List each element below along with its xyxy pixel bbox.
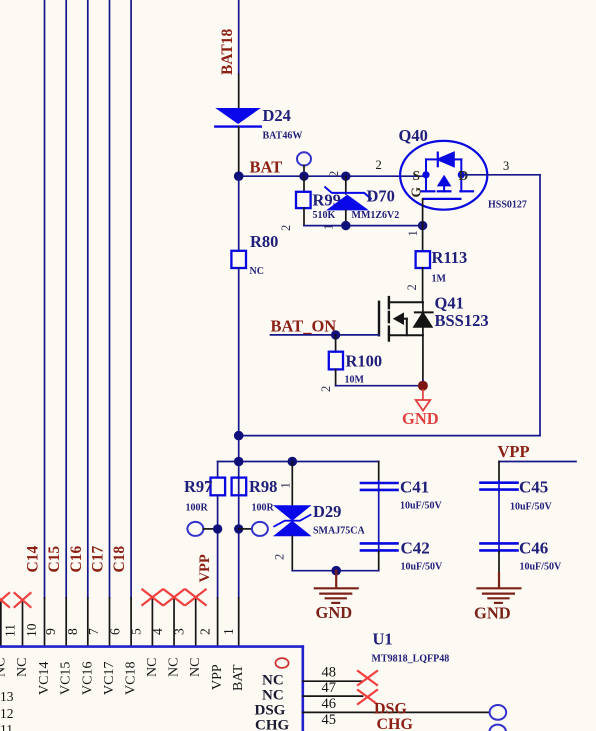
node junction D70 bottom [341, 221, 350, 230]
resistor R98 (on main line) [232, 478, 247, 496]
svg-text:C18: C18 [111, 546, 128, 573]
svg-text:1: 1 [279, 482, 293, 488]
node junction D29 top [288, 457, 298, 467]
svg-text:2: 2 [197, 628, 212, 635]
svg-text:10uF/50V: 10uF/50V [400, 501, 442, 512]
pin dot D of Q40 [458, 171, 465, 178]
svg-text:HSS0127: HSS0127 [488, 200, 527, 211]
svg-text:BSS123: BSS123 [435, 311, 489, 330]
wire main line to port [239, 528, 252, 530]
wire Q40 drain to right rail [461, 174, 540, 176]
svg-text:6: 6 [108, 628, 123, 635]
node junction at D70 top [341, 172, 350, 181]
node junction GND left [331, 566, 341, 576]
svg-text:3: 3 [171, 628, 186, 635]
node junction BAT_ON / R100 [331, 330, 340, 339]
svg-text:1: 1 [406, 230, 420, 236]
svg-text:2: 2 [405, 284, 419, 290]
svg-text:11: 11 [2, 624, 17, 637]
svg-text:U1: U1 [373, 630, 393, 649]
wire VC15 vertical bus [65, 0, 67, 598]
node BAT junction [234, 171, 244, 181]
svg-text:2: 2 [376, 158, 382, 172]
no-connect X on pin 47 [358, 690, 377, 704]
svg-text:VPP: VPP [210, 664, 225, 690]
svg-text:NC: NC [0, 658, 8, 677]
port circle BAT [297, 152, 311, 165]
svg-text:VC17: VC17 [102, 662, 117, 695]
node junction at port [299, 172, 308, 181]
svg-text:VPP: VPP [498, 442, 530, 461]
op-amp U1 outline top edge [0, 645, 303, 648]
svg-text:G: G [409, 187, 424, 198]
svg-text:VC15: VC15 [59, 662, 74, 695]
svg-text:C14: C14 [25, 546, 42, 573]
node junction main/bottom rail [234, 431, 244, 441]
wire BAT_ON to Q41 gate [271, 334, 380, 336]
svg-text:BAT46W: BAT46W [263, 131, 303, 142]
wire port stub [303, 166, 305, 177]
wire pin10-6 black segments [44, 598, 46, 647]
resistor R99 [303, 176, 305, 192]
capacitor C46 [481, 542, 518, 545]
wire VPP branch horizontal [218, 461, 379, 463]
svg-text:C17: C17 [90, 546, 107, 573]
wire pin5 stub [151, 598, 153, 647]
marker red ellipse [275, 658, 288, 668]
svg-text:DSG: DSG [255, 703, 286, 719]
svg-text:R97: R97 [184, 477, 212, 496]
svg-text:2: 2 [273, 554, 287, 560]
resistor R97 [217, 462, 219, 478]
transistor Q41 (N-MOSFET) [379, 297, 433, 380]
wire pin3 stub [195, 598, 197, 647]
svg-text:2: 2 [319, 386, 333, 392]
capacitor C42 [361, 542, 398, 545]
svg-text:10: 10 [24, 623, 39, 637]
port circle left [187, 522, 203, 536]
wire pin12 stub [0, 601, 2, 647]
svg-text:510K: 510K [313, 210, 336, 221]
wire gate bus (R99/D70 bottoms to Q40 gate) [304, 225, 423, 227]
svg-text:13: 13 [0, 689, 14, 704]
svg-text:NC: NC [145, 658, 160, 677]
svg-text:SMAJ75CA: SMAJ75CA [313, 526, 365, 537]
svg-text:10M: 10M [345, 375, 365, 386]
resistor R100 [335, 335, 337, 352]
wire VPP horizontal [499, 461, 576, 463]
svg-text:NC: NC [15, 658, 30, 677]
wire VC17 vertical bus [109, 0, 111, 598]
svg-text:D29: D29 [313, 502, 341, 521]
svg-text:46: 46 [322, 696, 337, 712]
TVS diode D29 (bidirectional) [291, 462, 293, 506]
svg-text:NC: NC [262, 673, 284, 689]
svg-text:NC: NC [262, 688, 284, 704]
svg-text:C41: C41 [400, 478, 429, 497]
svg-text:R113: R113 [432, 248, 468, 267]
svg-text:BAT_ON: BAT_ON [271, 317, 337, 336]
svg-text:Q40: Q40 [399, 126, 428, 145]
svg-text:45: 45 [322, 712, 337, 728]
U1 outline right edge [301, 647, 304, 731]
svg-text:BAT: BAT [250, 158, 283, 177]
wire bottom rail to main line [239, 435, 540, 437]
svg-text:NC: NC [250, 266, 264, 277]
svg-text:R100: R100 [346, 352, 383, 371]
port circle right [252, 522, 268, 536]
wire R100 bottom to Q41 source node [336, 385, 423, 387]
svg-text:7: 7 [86, 628, 101, 635]
capacitor C45 [498, 462, 500, 482]
svg-text:47: 47 [322, 680, 337, 696]
wire main line R80 to bottom [238, 268, 240, 598]
svg-text:NC: NC [167, 658, 182, 677]
svg-text:11: 11 [0, 722, 13, 731]
svg-text:D24: D24 [263, 106, 291, 125]
no-connect X marks on pins [0, 590, 206, 608]
svg-text:10uF/50V: 10uF/50V [520, 562, 562, 573]
svg-text:C42: C42 [401, 539, 430, 558]
wire pin 48 [303, 680, 363, 682]
svg-text:GND: GND [402, 409, 439, 428]
svg-text:100R: 100R [252, 503, 275, 514]
ground earth symbol left (dark maroon) [315, 571, 358, 603]
ground GND power symbol (red) [422, 390, 424, 400]
wire D24 cathode to BAT node [238, 127, 240, 177]
svg-text:48: 48 [322, 665, 337, 681]
no-connect X on pin 48 [358, 671, 377, 704]
svg-text:MT9818_LQFP48: MT9818_LQFP48 [372, 654, 450, 665]
wire VC18 vertical bus [130, 0, 132, 598]
svg-text:C16: C16 [68, 546, 85, 573]
svg-text:GND: GND [474, 604, 511, 623]
node junction main line y=461 [234, 457, 244, 467]
svg-text:100R: 100R [186, 503, 209, 514]
pin dot S of Q40 [422, 171, 429, 178]
svg-text:10uF/50V: 10uF/50V [401, 562, 443, 573]
svg-text:BAT: BAT [231, 664, 246, 691]
node junction gate / R113 [418, 221, 427, 230]
svg-text:3: 3 [503, 159, 509, 173]
svg-text:1M: 1M [432, 274, 447, 285]
node junction GND (dark red dot) [418, 381, 428, 391]
ground earth symbol right (dark maroon) [478, 573, 521, 603]
zener diode D70 [345, 176, 347, 194]
wire pin11 stub [22, 601, 24, 647]
svg-text:S: S [413, 168, 421, 183]
transistor Q40 (P-MOSFET in ellipse) [400, 141, 487, 210]
resistor R80 (on main line) [238, 176, 240, 251]
resistor R113 [422, 226, 424, 252]
svg-text:2: 2 [279, 225, 293, 231]
diode D24 [215, 108, 260, 124]
svg-text:Q41: Q41 [435, 294, 464, 313]
wire Q40 gate lead down [422, 199, 424, 226]
svg-text:VC14: VC14 [37, 662, 52, 695]
svg-text:VC18: VC18 [124, 662, 139, 695]
svg-text:BAT18: BAT18 [219, 29, 236, 75]
wire port to R97 line [203, 528, 217, 530]
wire pin 47 [303, 695, 363, 697]
svg-text:CHG: CHG [255, 718, 290, 731]
svg-text:1: 1 [221, 628, 236, 635]
svg-text:C15: C15 [46, 546, 63, 573]
svg-text:C45: C45 [519, 478, 548, 497]
svg-text:VPP: VPP [197, 554, 213, 582]
port circle CHG [489, 725, 506, 731]
svg-text:R80: R80 [250, 232, 278, 251]
svg-text:GND: GND [316, 603, 353, 622]
wire pin2 black segment [217, 598, 219, 647]
port circle DSG [490, 705, 507, 720]
svg-text:10uF/50V: 10uF/50V [510, 502, 552, 513]
svg-text:4: 4 [150, 628, 165, 635]
capacitor C41 [378, 462, 380, 482]
svg-text:C46: C46 [519, 539, 548, 558]
wire pin 46 (DSG) [303, 711, 490, 713]
svg-text:MM1Z6V2: MM1Z6V2 [352, 210, 400, 221]
svg-text:D70: D70 [367, 187, 395, 206]
svg-text:CHG: CHG [377, 716, 414, 731]
wire VC14 vertical bus [44, 0, 46, 598]
svg-text:R98: R98 [249, 477, 277, 496]
wire BAT18 net (top vertical) [238, 0, 240, 75]
wire pin4 stub [173, 598, 175, 647]
node junction main line [234, 524, 243, 533]
svg-text:VC16: VC16 [80, 662, 95, 695]
svg-text:2: 2 [327, 171, 341, 177]
wire VC16 vertical bus [87, 0, 89, 598]
wire right rail down [539, 175, 541, 436]
svg-text:8: 8 [65, 628, 80, 635]
wire pin1 black segment [238, 598, 240, 647]
svg-text:5: 5 [128, 628, 143, 635]
svg-text:9: 9 [43, 628, 58, 635]
wire BAT horizontal to Q40 source [239, 175, 426, 177]
svg-text:12: 12 [0, 706, 14, 721]
svg-text:DSG: DSG [374, 701, 407, 718]
svg-text:NC: NC [188, 658, 203, 677]
wire D29 bottom to C42 bottom [292, 570, 378, 572]
svg-text:1: 1 [322, 224, 336, 230]
node junction R97 line [213, 524, 222, 533]
